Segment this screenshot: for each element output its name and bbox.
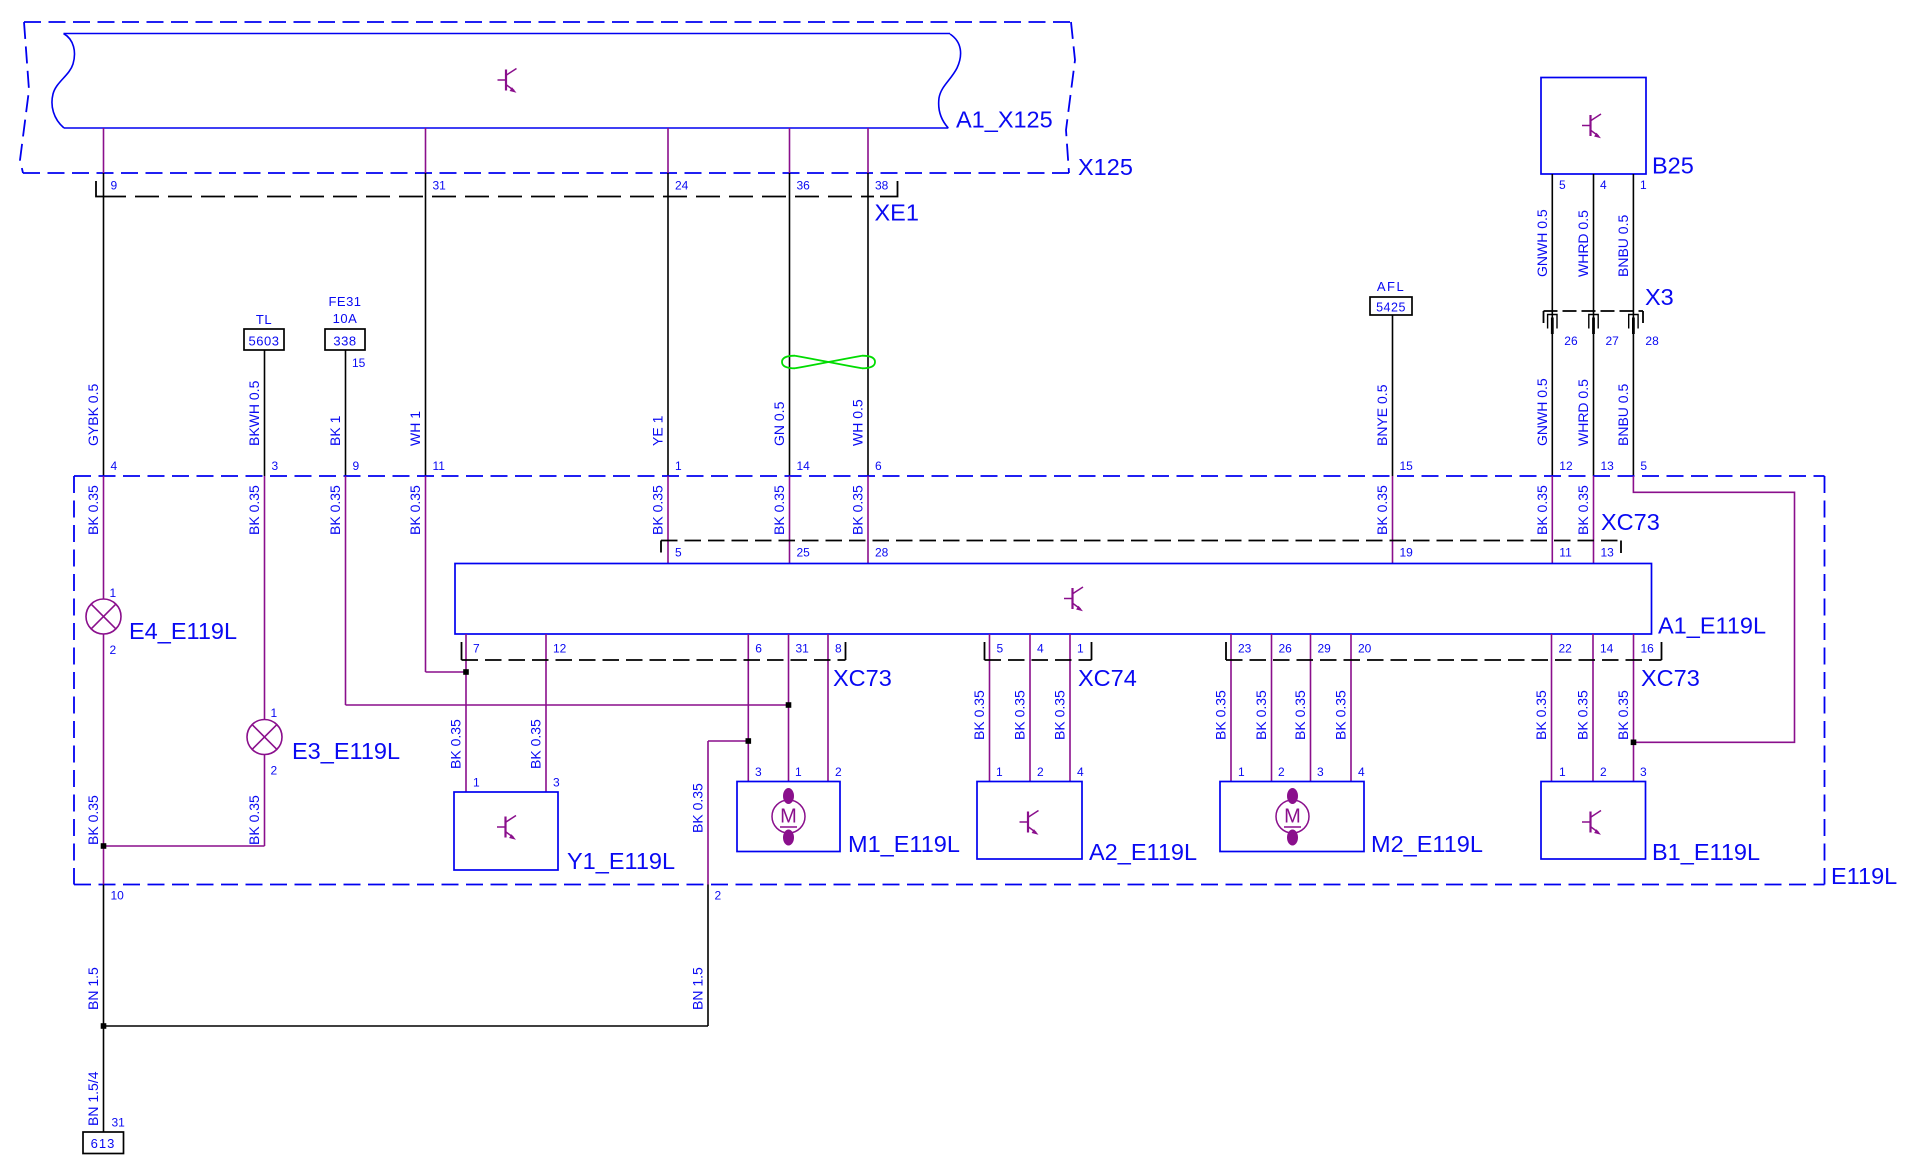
- svg-text:BNBU 0.5: BNBU 0.5: [1615, 215, 1631, 277]
- svg-text:1: 1: [473, 776, 480, 790]
- connector pin symbol X3-28: [1629, 315, 1638, 335]
- wire BK 0.35 ground tap to pin 2: [707, 741, 709, 885]
- svg-text:13: 13: [1601, 546, 1615, 560]
- svg-text:9: 9: [353, 459, 360, 473]
- wire BK 0.35 to M2: [1310, 634, 1312, 782]
- svg-text:2: 2: [1278, 765, 1285, 779]
- wire BK 0.35 from lamp E4 pin 2 to pin 10: [103, 635, 105, 885]
- svg-text:M2_E119L: M2_E119L: [1371, 831, 1483, 857]
- wire BK 0.35 into A1_E119L: [667, 476, 669, 564]
- svg-text:4: 4: [111, 459, 118, 473]
- svg-text:YE 1: YE 1: [650, 415, 666, 446]
- svg-text:BK 0.35: BK 0.35: [1292, 690, 1308, 740]
- svg-text:26: 26: [1279, 642, 1293, 656]
- svg-text:BNBU 0.5: BNBU 0.5: [1615, 384, 1631, 446]
- transistor symbol inside A2_E119L: [1020, 811, 1039, 835]
- valve Y1_E119L: [454, 792, 558, 870]
- svg-text:11: 11: [433, 459, 446, 473]
- wire BK 0.35 to M1: [747, 634, 749, 782]
- svg-text:31: 31: [112, 1116, 126, 1130]
- transistor symbol inside B1_E119L: [1582, 811, 1601, 835]
- svg-text:2: 2: [1037, 765, 1044, 779]
- svg-text:5: 5: [1559, 178, 1566, 192]
- svg-text:BK 0.35: BK 0.35: [690, 783, 706, 833]
- wire joining E3 to E4 branch: [104, 845, 265, 847]
- connector pin symbol X3-27: [1589, 315, 1598, 335]
- svg-text:XC73: XC73: [1641, 665, 1700, 691]
- svg-text:TL: TL: [256, 312, 272, 327]
- svg-text:12: 12: [553, 642, 567, 656]
- connector X3 dashed line: [1544, 310, 1644, 312]
- svg-text:38: 38: [875, 179, 889, 193]
- motor M2_E119L: [1220, 782, 1364, 852]
- wire GYBK 0.5 (pin 9 to pin 4): [103, 173, 105, 476]
- wire BK 1 from fuse 338: [345, 350, 347, 476]
- connector XC73 (bottom right, dashed): [1226, 659, 1662, 661]
- wire BK 0.35 to M2: [1350, 634, 1352, 782]
- wire BK 0.35 from lamp E3 pin 2: [264, 755, 266, 847]
- svg-text:BK 0.35: BK 0.35: [85, 485, 101, 535]
- svg-text:10: 10: [111, 889, 125, 903]
- svg-text:16: 16: [1641, 642, 1655, 656]
- motor symbol M1: [772, 788, 805, 846]
- svg-text:3: 3: [553, 776, 560, 790]
- svg-text:WH 1: WH 1: [407, 411, 423, 446]
- connector XC73 (bottom left, dashed): [462, 659, 846, 661]
- svg-text:36: 36: [797, 179, 811, 193]
- svg-text:31: 31: [796, 642, 810, 656]
- svg-text:M: M: [780, 806, 797, 828]
- svg-text:6: 6: [875, 459, 882, 473]
- svg-text:BK 0.35: BK 0.35: [1333, 690, 1349, 740]
- svg-text:1: 1: [675, 459, 682, 473]
- wire BK 0.35 into A1_E119L: [867, 476, 869, 564]
- svg-text:2: 2: [715, 889, 722, 903]
- svg-text:24: 24: [675, 179, 689, 193]
- svg-text:BK 0.35: BK 0.35: [1052, 690, 1068, 740]
- svg-text:BK 0.35: BK 0.35: [1253, 690, 1269, 740]
- wire GNWH 0.5 from B25 pin 5: [1551, 174, 1553, 476]
- svg-text:5603: 5603: [249, 334, 280, 349]
- svg-text:XC73: XC73: [1601, 509, 1660, 535]
- wire BK 0.35 to M1: [788, 634, 790, 782]
- connector XE1 (dashed line with end brackets): [102, 196, 874, 198]
- svg-text:4: 4: [1358, 765, 1365, 779]
- svg-text:3: 3: [1640, 765, 1647, 779]
- wire ground tap to M1 pin 3 net: [708, 740, 748, 742]
- lamp E4_E119L: [86, 599, 121, 634]
- wire YE 1 (pin 24 to pin 1): [667, 173, 669, 476]
- svg-text:BK 0.35: BK 0.35: [448, 719, 464, 769]
- svg-text:BK 0.35: BK 0.35: [850, 485, 866, 535]
- svg-text:22: 22: [1559, 642, 1573, 656]
- svg-text:BK 0.35: BK 0.35: [1615, 690, 1631, 740]
- svg-text:1: 1: [1559, 765, 1566, 779]
- svg-text:FE31: FE31: [328, 294, 361, 309]
- svg-text:15: 15: [352, 356, 366, 370]
- junction dot: [786, 702, 792, 708]
- junction dot: [1631, 740, 1637, 746]
- svg-text:A2_E119L: A2_E119L: [1089, 839, 1197, 865]
- svg-text:BK 0.35: BK 0.35: [650, 485, 666, 535]
- wire BK 0.35 to Y1: [545, 634, 547, 792]
- svg-text:BK 0.35: BK 0.35: [771, 485, 787, 535]
- svg-text:BK 0.35: BK 0.35: [1012, 690, 1028, 740]
- wire BKWH 0.5 from TL: [264, 350, 266, 476]
- svg-text:BN 1.5/4: BN 1.5/4: [85, 1071, 101, 1126]
- svg-text:3: 3: [755, 765, 762, 779]
- wire BK 0.35 from pin 9: [345, 476, 347, 705]
- svg-text:BN 1.5: BN 1.5: [85, 967, 101, 1010]
- wire to Y1 pin 1 net: [426, 671, 467, 673]
- svg-text:8: 8: [835, 642, 842, 656]
- svg-text:1: 1: [996, 765, 1003, 779]
- junction dot: [746, 738, 752, 744]
- wire BK 0.35 to B1: [1551, 634, 1553, 782]
- wire BNYE 0.5 from AFL: [1392, 315, 1394, 476]
- connector-box X125 (dashed outline): [20, 22, 1075, 173]
- svg-text:28: 28: [875, 546, 889, 560]
- svg-text:BK 0.35: BK 0.35: [246, 485, 262, 535]
- wire BK 0.35 to B1: [1633, 634, 1635, 782]
- svg-text:4: 4: [1077, 765, 1084, 779]
- svg-text:3: 3: [1317, 765, 1324, 779]
- lamp E3_E119L: [247, 720, 282, 755]
- transistor symbol inside B25: [1582, 114, 1601, 138]
- svg-text:15: 15: [1400, 459, 1414, 473]
- svg-text:GN 0.5: GN 0.5: [771, 401, 787, 446]
- svg-text:GNWH 0.5: GNWH 0.5: [1534, 378, 1550, 446]
- assembly border E119L (dashed box): [74, 476, 1825, 885]
- twisted-pair symbol (green): [782, 356, 875, 369]
- connector XC73 (top, dashed): [661, 540, 1621, 542]
- wire BK 0.35 to A2: [1069, 634, 1071, 782]
- motor symbol M2: [1276, 788, 1309, 846]
- svg-text:2: 2: [271, 764, 278, 778]
- wire BK 0.35 from pin 11: [425, 476, 427, 672]
- svg-text:BK 0.35: BK 0.35: [1533, 690, 1549, 740]
- svg-text:23: 23: [1238, 642, 1252, 656]
- ECU A1_E119L: [455, 564, 1652, 635]
- svg-text:20: 20: [1358, 642, 1372, 656]
- wire WHRD 0.5 from B25 pin 4: [1593, 174, 1595, 476]
- svg-text:9: 9: [111, 179, 118, 193]
- svg-text:12: 12: [1559, 459, 1573, 473]
- svg-text:GNWH 0.5: GNWH 0.5: [1534, 209, 1550, 277]
- svg-text:M: M: [1284, 806, 1301, 828]
- junction dot: [101, 1023, 107, 1029]
- svg-text:14: 14: [797, 459, 811, 473]
- svg-text:WHRD 0.5: WHRD 0.5: [1575, 210, 1591, 277]
- svg-text:X3: X3: [1645, 284, 1674, 310]
- wire BK 0.35 to lamp E4 pin 1: [103, 476, 105, 599]
- svg-text:BK 1: BK 1: [327, 415, 343, 446]
- svg-text:5425: 5425: [1376, 301, 1406, 315]
- svg-text:E3_E119L: E3_E119L: [292, 738, 400, 764]
- svg-text:27: 27: [1606, 334, 1620, 348]
- svg-text:2: 2: [1600, 765, 1607, 779]
- wire BN 1.5 from pin 10 to ground: [103, 885, 105, 1133]
- connector XC74 (dashed): [985, 659, 1092, 661]
- svg-text:BK 0.35: BK 0.35: [1213, 690, 1229, 740]
- svg-text:BK 0.35: BK 0.35: [1575, 690, 1591, 740]
- svg-text:A1_X125: A1_X125: [956, 107, 1053, 133]
- wire WH 0.5 (pin 38 to pin 6): [867, 173, 869, 476]
- svg-text:1: 1: [110, 586, 117, 600]
- wire to M1 pin 1 net: [346, 704, 789, 706]
- svg-text:5: 5: [1640, 459, 1647, 473]
- svg-text:BK 0.35: BK 0.35: [971, 690, 987, 740]
- wire BK 0.35 into A1_E119L: [789, 476, 791, 564]
- svg-text:4: 4: [1037, 642, 1044, 656]
- wire BK 0.35 to A2: [1029, 634, 1031, 782]
- svg-text:BK 0.35: BK 0.35: [327, 485, 343, 535]
- wire BK 0.35 to lamp E3 pin 1: [264, 476, 266, 720]
- motor M1_E119L: [737, 782, 840, 852]
- svg-text:7: 7: [473, 642, 480, 656]
- svg-text:1: 1: [795, 765, 802, 779]
- svg-text:A1_E119L: A1_E119L: [1658, 613, 1766, 639]
- wire BK 0.35 into A1_E119L: [1392, 476, 1394, 564]
- wire WH 1 (pin 31 to pin 11): [425, 173, 427, 476]
- wire BK 0.35 to B1: [1592, 634, 1594, 782]
- svg-text:E4_E119L: E4_E119L: [129, 618, 237, 644]
- svg-text:WHRD 0.5: WHRD 0.5: [1575, 379, 1591, 446]
- transistor symbol inside A1_X125: [498, 69, 517, 93]
- sensor B25: [1541, 78, 1646, 175]
- actuator A2_E119L: [977, 782, 1082, 860]
- svg-text:BK 0.35: BK 0.35: [407, 485, 423, 535]
- svg-text:WH 0.5: WH 0.5: [850, 399, 866, 446]
- svg-text:25: 25: [797, 546, 811, 560]
- svg-text:BK 0.35: BK 0.35: [528, 719, 544, 769]
- wire BK 0.35 to A2: [989, 634, 991, 782]
- svg-text:GYBK 0.5: GYBK 0.5: [85, 384, 101, 446]
- transistor symbol inside Y1_E119L: [497, 816, 516, 840]
- svg-text:XC74: XC74: [1078, 665, 1137, 691]
- svg-text:6: 6: [755, 642, 762, 656]
- wire BK 0.35 into A1_E119L: [1593, 476, 1595, 564]
- svg-text:BK 0.35: BK 0.35: [1575, 485, 1591, 535]
- svg-text:Y1_E119L: Y1_E119L: [567, 848, 675, 874]
- svg-text:4: 4: [1600, 178, 1607, 192]
- connector pin symbol X3-26: [1548, 315, 1557, 335]
- svg-text:28: 28: [1645, 334, 1659, 348]
- wire stub from A1_X125: [425, 128, 427, 173]
- wire stub from A1_X125: [789, 128, 791, 173]
- wire BNBU net from pin 5 around ECU to B1 pin 3: [1633, 476, 1794, 742]
- wire BK 0.35 into A1_E119L: [1551, 476, 1553, 564]
- svg-text:BNYE 0.5: BNYE 0.5: [1374, 384, 1390, 446]
- svg-text:BK 0.35: BK 0.35: [246, 795, 262, 845]
- transistor symbol inside A1_E119L: [1064, 587, 1083, 611]
- svg-text:E119L: E119L: [1831, 863, 1897, 889]
- svg-text:X125: X125: [1078, 154, 1133, 180]
- svg-text:BK 0.35: BK 0.35: [85, 795, 101, 845]
- svg-text:M1_E119L: M1_E119L: [848, 831, 960, 857]
- svg-text:XE1: XE1: [875, 200, 919, 226]
- svg-text:26: 26: [1564, 334, 1578, 348]
- svg-text:10A: 10A: [333, 311, 358, 326]
- svg-text:BKWH 0.5: BKWH 0.5: [246, 380, 262, 446]
- svg-text:31: 31: [433, 179, 447, 193]
- svg-text:1: 1: [1077, 642, 1084, 656]
- svg-text:29: 29: [1318, 642, 1332, 656]
- sensor B1_E119L: [1541, 782, 1646, 860]
- wire BK 0.35 to M2: [1271, 634, 1273, 782]
- svg-text:11: 11: [1559, 546, 1572, 560]
- wire stub from A1_X125: [667, 128, 669, 173]
- svg-text:5: 5: [675, 546, 682, 560]
- svg-text:338: 338: [333, 334, 356, 349]
- wire stub from A1_X125: [867, 128, 869, 173]
- svg-text:14: 14: [1600, 642, 1614, 656]
- svg-text:613: 613: [91, 1136, 116, 1151]
- wire stub from A1_X125: [103, 128, 105, 173]
- wire BK 0.35 to M1: [827, 634, 829, 782]
- svg-text:XC73: XC73: [833, 665, 892, 691]
- svg-text:1: 1: [271, 706, 278, 720]
- svg-text:2: 2: [110, 643, 117, 657]
- junction dot: [101, 843, 107, 849]
- svg-text:3: 3: [272, 459, 279, 473]
- wire BK 0.35 to M2: [1230, 634, 1232, 782]
- wire BNBU 0.5 from B25 pin 1: [1632, 174, 1634, 476]
- svg-text:1: 1: [1238, 765, 1245, 779]
- svg-text:BK 0.35: BK 0.35: [1374, 485, 1390, 535]
- ground point box 613: [83, 1132, 124, 1154]
- svg-text:BN 1.5: BN 1.5: [690, 967, 706, 1010]
- svg-text:BK 0.35: BK 0.35: [1534, 485, 1550, 535]
- junction dot: [463, 669, 469, 675]
- svg-text:19: 19: [1400, 546, 1414, 560]
- wire BK 0.35 to Y1: [465, 634, 467, 792]
- svg-text:B1_E119L: B1_E119L: [1652, 839, 1760, 865]
- wire BN 1.5 from pin 2 to ground: [707, 885, 709, 1027]
- ECU A1_X125 (broken-edge rectangle): [52, 34, 961, 129]
- svg-text:13: 13: [1601, 459, 1615, 473]
- wire ground bus: [104, 1025, 709, 1027]
- svg-text:5: 5: [997, 642, 1004, 656]
- svg-text:AFL: AFL: [1377, 279, 1405, 294]
- wire GN 0.5 (pin 36 to pin 14): [789, 173, 791, 476]
- svg-text:1: 1: [1640, 178, 1647, 192]
- svg-text:B25: B25: [1652, 153, 1694, 179]
- svg-text:2: 2: [835, 765, 842, 779]
